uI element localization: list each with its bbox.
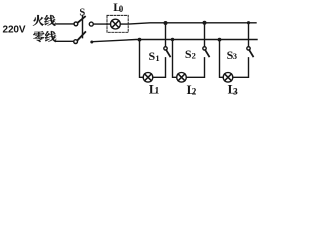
svg-text:S: S <box>79 7 85 18</box>
svg-text:0: 0 <box>119 4 124 14</box>
svg-text:3: 3 <box>233 87 238 97</box>
svg-text:3: 3 <box>233 51 237 61</box>
svg-text:2: 2 <box>192 50 196 60</box>
svg-text:1: 1 <box>155 53 159 63</box>
svg-text:1: 1 <box>155 87 160 97</box>
svg-text:2: 2 <box>192 87 197 97</box>
svg-text:220V: 220V <box>3 25 26 36</box>
